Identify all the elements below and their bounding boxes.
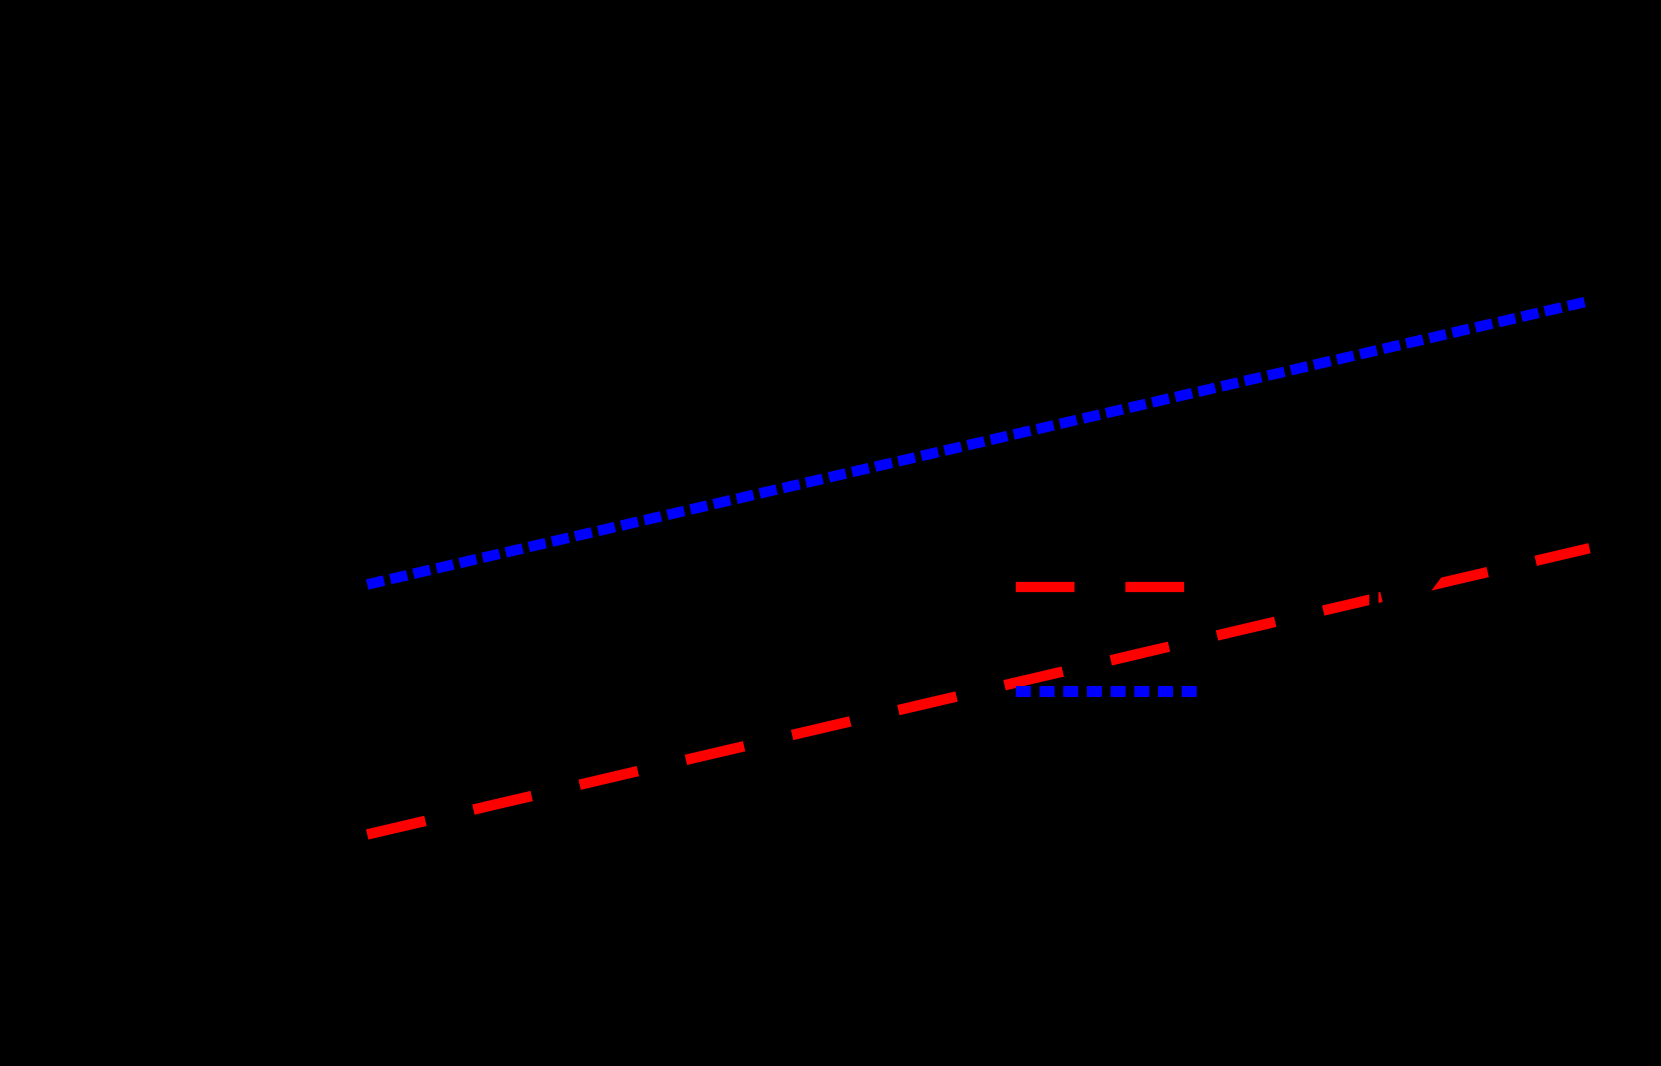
legend sample: red dashed	[1016, 582, 1198, 592]
legend sample: blue dotted	[1016, 686, 1198, 697]
blue dotted line (upper series)	[367, 302, 1585, 585]
red dashed line (lower series)	[367, 548, 1589, 834]
notch cut on next red dash	[1428, 571, 1446, 591]
black annotation arrow cover over red line (invisible on black, creates cutouts)	[1369, 560, 1378, 615]
